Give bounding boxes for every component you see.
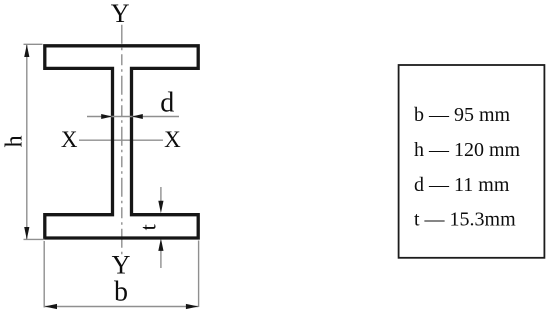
- centerline X axis (horizontal): [79, 139, 163, 141]
- dimension b arrow left: [45, 304, 58, 309]
- svg-text:b — 95 mm: b — 95 mm: [414, 104, 511, 126]
- dimension b extension line right: [198, 241, 200, 308]
- dimension t line top segment: [160, 187, 162, 205]
- svg-text:d: d: [160, 87, 174, 118]
- dimension d arrow right-pointing (left of web): [101, 114, 112, 119]
- centerline Y axis (vertical dash-dot): [121, 25, 123, 255]
- dimension h arrow up: [24, 45, 29, 58]
- dimension t line bottom segment: [160, 245, 162, 268]
- svg-text:t: t: [136, 224, 161, 230]
- I-beam section outline: [45, 46, 198, 238]
- dimension h extension line bottom: [24, 238, 45, 240]
- svg-text:X: X: [164, 127, 181, 152]
- dimension h extension line top: [24, 43, 43, 45]
- dimension h line: [26, 45, 28, 240]
- dimension t arrow up: [158, 238, 163, 251]
- svg-text:b: b: [114, 277, 128, 308]
- dimension d arrow left-pointing (right of web): [132, 114, 143, 119]
- dimension h arrow down: [24, 227, 29, 240]
- svg-text:d — 11 mm: d — 11 mm: [414, 174, 510, 196]
- dimension b arrow right: [186, 304, 199, 309]
- svg-text:t — 15.3mm: t — 15.3mm: [414, 209, 516, 231]
- svg-text:Y: Y: [111, 0, 130, 28]
- svg-text:h — 120 mm: h — 120 mm: [414, 139, 521, 161]
- dimension b line: [45, 306, 199, 308]
- legend box: [399, 65, 545, 258]
- svg-text:X: X: [61, 127, 78, 152]
- dimension t arrow down: [158, 201, 163, 214]
- svg-text:h: h: [1, 135, 27, 147]
- dimension d line: [87, 116, 179, 118]
- svg-text:Y: Y: [112, 251, 131, 280]
- dimension b extension line left: [43, 241, 45, 308]
